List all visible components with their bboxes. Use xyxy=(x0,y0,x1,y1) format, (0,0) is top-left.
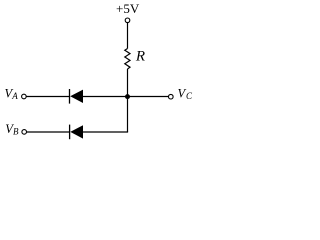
svg-text:B: B xyxy=(13,127,19,137)
svg-text:R: R xyxy=(135,48,145,64)
svg-text:+5V: +5V xyxy=(116,1,140,16)
svg-text:A: A xyxy=(11,91,18,101)
svg-text:C: C xyxy=(186,91,193,101)
